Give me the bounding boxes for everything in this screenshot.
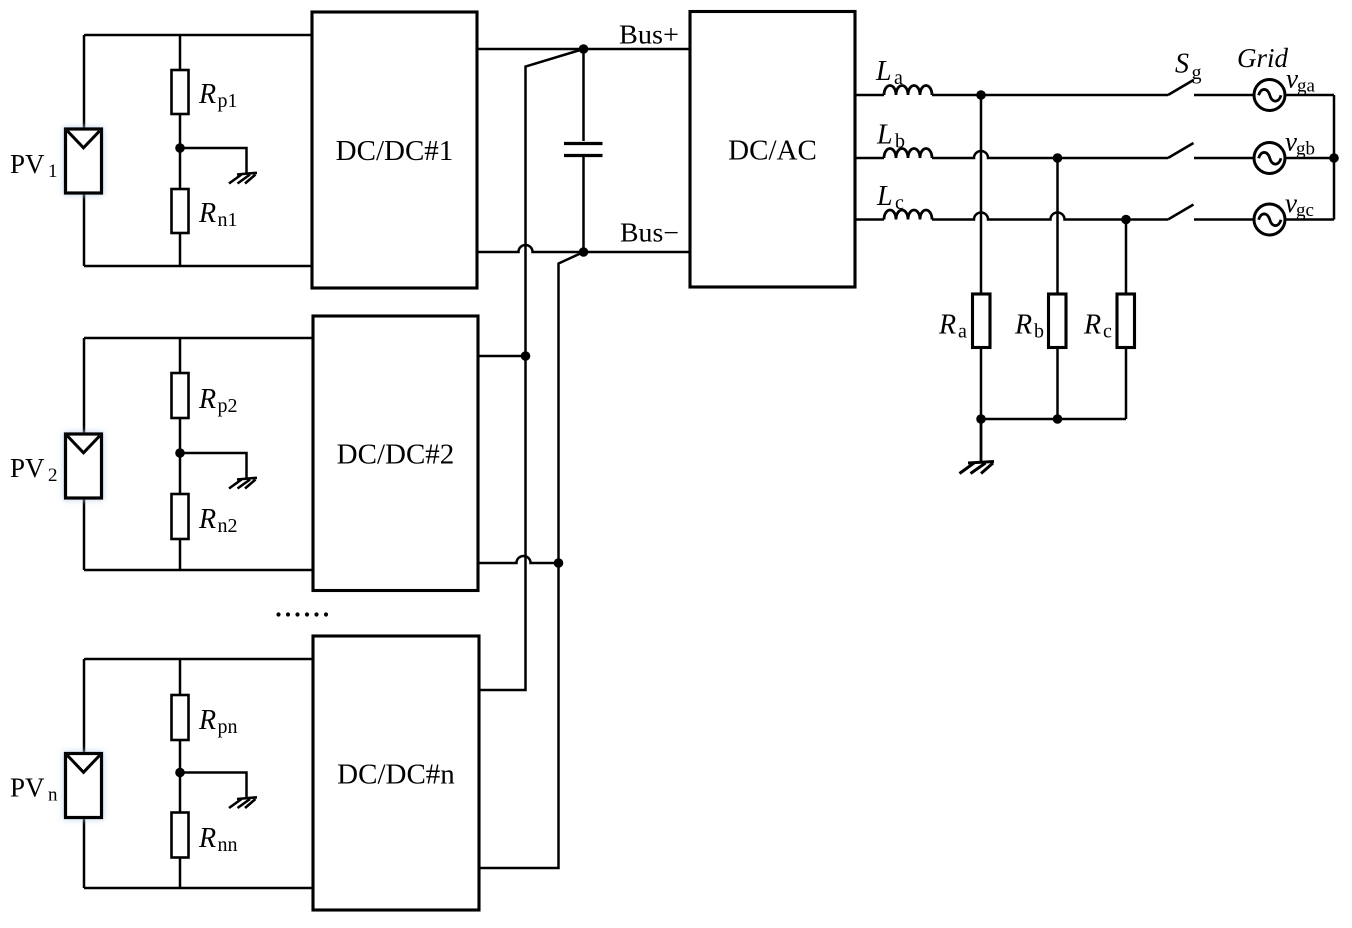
inductor Lc [884, 210, 932, 220]
svg-text:p2: p2 [218, 395, 238, 417]
svg-text:R: R [1083, 310, 1101, 341]
svg-text:R: R [198, 384, 216, 415]
svg-text:gb: gb [1296, 139, 1315, 160]
wire PVn bottom [84, 887, 313, 890]
svg-text:gc: gc [1296, 200, 1314, 221]
svg-text:R: R [938, 310, 956, 341]
wire DC/DC#2 output+ to collector [478, 355, 526, 358]
source vgb [1254, 143, 1285, 174]
converter DC/AC [690, 12, 855, 288]
svg-text:Grid: Grid [1237, 43, 1289, 73]
source vga [1254, 80, 1285, 111]
wire ground stub 2 [180, 453, 247, 478]
node phase c tap [1121, 215, 1131, 225]
node neutral Ra [976, 414, 986, 424]
node divider 1 [175, 143, 185, 153]
node neutral Rb [1053, 414, 1063, 424]
svg-text:PV: PV [10, 453, 45, 483]
svg-text:n2: n2 [218, 515, 238, 537]
switch Sg phase a lever [1168, 80, 1194, 95]
node divider n [175, 768, 185, 778]
svg-text:n: n [48, 785, 58, 806]
wire ground stub n [180, 773, 247, 798]
wire Bus- collector diagonal [479, 252, 584, 868]
node grid rail phase b [1329, 153, 1339, 163]
svg-text:R: R [198, 823, 216, 854]
wire PVn left vertical [83, 659, 86, 888]
wire phase b (inductor to switch, hop over a-drop) [932, 151, 1168, 158]
wire phase a (inverter to inductor) [855, 94, 884, 97]
svg-text:g: g [1192, 62, 1202, 84]
ground G2 [229, 478, 257, 489]
resistor Rnn [172, 813, 189, 858]
ellipsis dots between sections [276, 612, 328, 616]
ground G1 [229, 173, 257, 184]
svg-text:DC/DC#2: DC/DC#2 [337, 439, 455, 471]
PV module PVn [64, 752, 104, 820]
converter DC/DC#2 [313, 316, 478, 591]
wire neutral tie [981, 418, 1126, 421]
svg-text:R: R [1014, 310, 1032, 341]
wire PV2 top [84, 337, 313, 340]
node DC/DC#2 output- junction [554, 558, 564, 568]
wire PV1 top (node PV1+ to DC/DC#1 input+) [84, 34, 312, 37]
resistor Rpn [172, 695, 189, 740]
ground Gn4 (neutral) [960, 462, 995, 474]
svg-text:1: 1 [48, 161, 58, 182]
resistor Rn1 [172, 189, 189, 233]
resistor Rc [1117, 294, 1135, 348]
svg-text:ga: ga [1297, 76, 1316, 97]
svg-text:R: R [198, 79, 216, 110]
wire phase c (inductor to switch, hops over a-drop and b-drop) [932, 213, 1168, 220]
PV module PV1 [64, 127, 104, 195]
wire PV2 bottom [84, 569, 313, 572]
wire ground stub 1 [180, 148, 247, 173]
switch Sg phase c lever [1168, 205, 1194, 220]
wire phase a (inductor to switch) [932, 94, 1168, 97]
svg-text:c: c [895, 192, 904, 214]
svg-text:pn: pn [218, 716, 238, 738]
resistor Rb [1049, 294, 1067, 348]
wire Rp1/Rn1 branch vertical [179, 35, 182, 266]
wire Rb bottom [1056, 348, 1059, 420]
wire PV1 left vertical [83, 35, 86, 266]
wire phase c (inverter to inductor) [855, 218, 884, 221]
svg-text:Bus+: Bus+ [619, 20, 679, 50]
svg-text:a: a [958, 321, 967, 343]
svg-text:R: R [198, 705, 216, 736]
wire PV1 bottom (to DC/DC#1 input-) [84, 265, 312, 268]
wire neutral ground drop [980, 419, 983, 461]
svg-text:L: L [875, 56, 892, 87]
wire Rb drop [1056, 158, 1059, 294]
wire Ra drop [980, 95, 983, 294]
resistor Ra [973, 294, 991, 348]
svg-text:p1: p1 [218, 90, 238, 112]
node Bus- junction [579, 247, 589, 257]
svg-text:R: R [198, 198, 216, 229]
svg-text:L: L [876, 120, 893, 151]
wire phase b (switch to source) [1194, 157, 1254, 160]
svg-text:DC/DC#n: DC/DC#n [337, 759, 455, 791]
svg-text:S: S [1175, 49, 1189, 80]
wire Bus- (with hop over left collector line) [477, 245, 690, 252]
wire phase a (source to right rail) [1285, 94, 1334, 97]
wire Bus+ collector diagonal [479, 49, 584, 690]
wire phase b (inverter to inductor) [855, 157, 884, 160]
inductor La [884, 86, 932, 96]
wire Ra bottom [980, 348, 983, 420]
wire PV2 left vertical [83, 338, 86, 570]
svg-text:PV: PV [10, 149, 45, 179]
converter DC/DC#n [313, 636, 479, 910]
wire phase b (source to right rail) [1285, 157, 1334, 160]
node phase a tap [976, 90, 986, 100]
svg-text:2: 2 [48, 465, 58, 486]
switch Sg phase b lever [1168, 143, 1194, 158]
svg-text:a: a [894, 67, 903, 89]
wire Bus+ [477, 48, 690, 51]
wire Rpn/Rnn branch vertical [179, 659, 182, 888]
svg-text:nn: nn [218, 834, 238, 856]
wire grid right rail [1333, 95, 1336, 220]
svg-text:n1: n1 [218, 209, 238, 231]
wire phase c (switch to source) [1194, 218, 1254, 221]
wire phase a (switch to source) [1194, 94, 1254, 97]
svg-text:c: c [1103, 321, 1112, 343]
wire Rc bottom [1125, 348, 1128, 420]
capacitor Cbus [564, 49, 603, 252]
wire Rp2/Rn2 branch vertical [179, 338, 182, 570]
node divider 2 [175, 448, 185, 458]
svg-text:b: b [1034, 321, 1044, 343]
node Bus+ junction [579, 44, 589, 54]
resistor Rp2 [172, 373, 189, 418]
svg-text:R: R [198, 504, 216, 535]
svg-text:L: L [876, 181, 893, 212]
svg-text:DC/DC#1: DC/DC#1 [336, 135, 454, 167]
wire phase c (source to right rail) [1285, 218, 1334, 221]
converter DC/DC#1 [312, 12, 477, 288]
svg-text:DC/AC: DC/AC [728, 135, 817, 167]
source vgc [1254, 204, 1285, 235]
node phase b tap [1053, 153, 1063, 163]
svg-text:b: b [895, 131, 905, 153]
node DC/DC#2 output+ junction [521, 351, 531, 361]
PV module PV2 [64, 432, 104, 500]
resistor Rn2 [172, 494, 189, 539]
wire Rc drop [1125, 220, 1128, 295]
wire PVn top [84, 658, 313, 661]
wire DC/DC#2 output- to collector (hop over left line) [478, 556, 559, 563]
inductor Lb [884, 149, 932, 159]
svg-text:PV: PV [10, 773, 45, 803]
svg-text:Bus−: Bus− [620, 218, 679, 248]
resistor Rp1 [172, 70, 189, 114]
ground Gn [229, 797, 257, 808]
